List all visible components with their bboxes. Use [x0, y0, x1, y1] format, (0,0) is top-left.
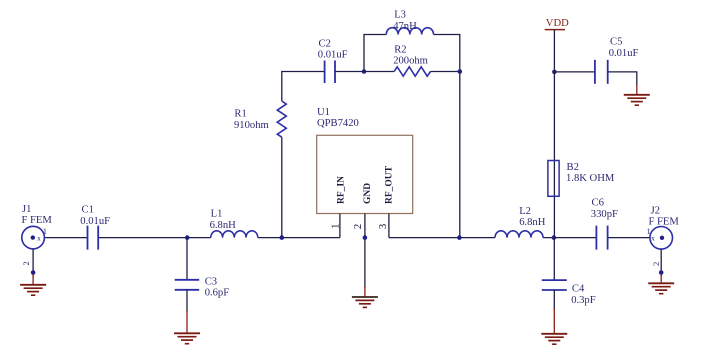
svg-text:1: 1: [330, 224, 342, 230]
ground under J2: [648, 274, 674, 294]
pin 1 label J1: [43, 226, 47, 236]
svg-text:J1: J1: [22, 204, 31, 215]
svg-text:2: 2: [352, 224, 364, 230]
svg-text:QPB7420: QPB7420: [317, 118, 359, 129]
wire R1 top to C2: [282, 72, 325, 102]
node junction R1 bottom: [280, 235, 285, 240]
resistor R2: [393, 44, 430, 76]
svg-text:6.8nH: 6.8nH: [210, 220, 237, 231]
capacitor C1: [80, 205, 110, 250]
svg-text:J2: J2: [651, 205, 660, 216]
wire U1 pin 1 stub: [339, 214, 341, 238]
node junction main line at 459: [457, 235, 462, 240]
svg-text:6.8nH: 6.8nH: [519, 217, 546, 228]
svg-text:0.01uF: 0.01uF: [80, 216, 110, 227]
wire U1 pin 3 to L2: [389, 237, 495, 239]
svg-text:GND: GND: [363, 183, 373, 204]
connector J1: [22, 204, 53, 249]
svg-text:0.01uF: 0.01uF: [318, 50, 348, 61]
wire U1 pin 3 stub: [388, 214, 390, 238]
wire J2 pin 2: [660, 249, 662, 276]
pin label RF_OUT: [385, 165, 395, 204]
resistor B2: [548, 161, 615, 197]
svg-text:C4: C4: [572, 284, 585, 295]
wire C2 to node B: [335, 71, 364, 73]
svg-text:F FEM: F FEM: [22, 215, 53, 226]
svg-text:3: 3: [377, 223, 389, 229]
svg-text:910ohm: 910ohm: [234, 120, 269, 131]
wire R2 to node C: [431, 71, 460, 73]
capacitor C2: [318, 39, 348, 84]
node junction U1 pin 2: [363, 235, 368, 240]
resistor R1: [234, 101, 286, 137]
wire L1 to U1 pin 1: [258, 237, 340, 239]
inductor L1: [210, 209, 258, 238]
wire C6 to J2: [608, 237, 650, 239]
svg-text:F FEM: F FEM: [649, 217, 680, 228]
pin number 1: [330, 224, 342, 230]
svg-text:x: x: [37, 233, 41, 242]
ground under J1: [20, 274, 46, 295]
wire VDD down to node D: [553, 30, 555, 72]
svg-text:2: 2: [21, 261, 31, 265]
svg-text:x: x: [651, 233, 655, 242]
ground under C3: [174, 310, 200, 344]
pin 1 label J2: [647, 226, 651, 236]
ground under U1 pin 2: [352, 286, 378, 307]
svg-text:0.3pF: 0.3pF: [571, 295, 596, 306]
svg-text:200ohm: 200ohm: [393, 56, 428, 67]
node junction L2 right: [552, 235, 557, 240]
pin number 2: [352, 224, 364, 230]
svg-text:1.8K OHM: 1.8K OHM: [566, 173, 615, 184]
wire C4 to ground: [553, 290, 555, 310]
node junction J1 pin 2: [31, 270, 36, 275]
svg-text:R1: R1: [234, 109, 246, 120]
svg-text:B2: B2: [567, 162, 579, 173]
wire node C down to main line: [459, 72, 461, 238]
svg-text:R2: R2: [394, 44, 406, 55]
svg-text:L1: L1: [211, 209, 223, 220]
svg-text:C2: C2: [319, 39, 331, 50]
wire C3 to ground: [186, 290, 188, 312]
capacitor C6: [591, 198, 618, 250]
svg-text:RF_OUT: RF_OUT: [385, 165, 395, 204]
wire J1 pin 2: [32, 249, 34, 276]
svg-text:0.01uF: 0.01uF: [609, 48, 639, 59]
node C junction: [458, 69, 463, 74]
svg-text:330pF: 330pF: [591, 209, 618, 220]
power VDD: [545, 18, 569, 30]
pin 2 label J2: [651, 262, 661, 266]
svg-text:1: 1: [43, 226, 47, 236]
wire L3 right down to node C: [434, 35, 460, 72]
pin label GND: [363, 183, 373, 204]
svg-text:C1: C1: [82, 205, 94, 216]
svg-text:0.6pF: 0.6pF: [205, 288, 230, 299]
pin number 3: [377, 223, 389, 229]
wire R1 bottom: [281, 137, 283, 237]
op-amp U1 body: [317, 107, 413, 214]
wire node A to C3: [186, 238, 188, 280]
capacitor C5: [595, 37, 639, 84]
wire C1 to node A: [98, 237, 211, 239]
ground under C5: [624, 84, 650, 105]
wire L2 to C6: [543, 237, 596, 239]
svg-text:L2: L2: [519, 206, 531, 217]
wire node to C4: [553, 238, 555, 281]
node junction J2 pin 2: [659, 270, 664, 275]
svg-text:2: 2: [651, 262, 661, 266]
ground under C4: [541, 308, 567, 344]
wire C5 to ground: [608, 72, 637, 85]
capacitor C4: [542, 280, 596, 306]
capacitor C3: [175, 276, 230, 298]
svg-text:U1: U1: [317, 107, 330, 118]
wire node B up to L3: [364, 35, 386, 72]
wire node D to C5: [554, 71, 595, 73]
wire node D down to B2: [553, 72, 555, 238]
wire node B to R2: [364, 71, 394, 73]
svg-text:C6: C6: [592, 198, 604, 209]
connector J2: [649, 205, 680, 249]
inductor L3: [386, 10, 433, 35]
inductor L2: [495, 206, 546, 238]
pin label RF_IN: [337, 176, 347, 204]
svg-text:C5: C5: [610, 37, 622, 48]
wire U1 pin 2 stub: [364, 214, 366, 289]
pin 2 label J1: [21, 261, 31, 265]
svg-text:1: 1: [647, 226, 651, 236]
svg-text:RF_IN: RF_IN: [337, 176, 347, 204]
svg-text:C3: C3: [205, 276, 217, 287]
node B junction: [362, 69, 367, 74]
node A junction: [185, 235, 190, 240]
wire main line J1 to C1: [44, 237, 87, 239]
svg-text:L3: L3: [394, 10, 406, 21]
svg-text:47nH: 47nH: [393, 21, 417, 32]
node D junction: [552, 70, 557, 75]
svg-text:VDD: VDD: [546, 18, 569, 29]
